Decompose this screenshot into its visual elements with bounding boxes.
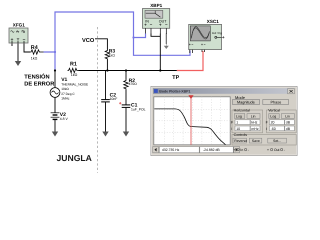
svg-text:470Ω: 470Ω — [129, 82, 138, 86]
svg-text:kHz: kHz — [251, 121, 257, 125]
svg-text:1kΩ: 1kΩ — [109, 54, 116, 58]
wire XFG1 left pin stub — [11, 43, 13, 46]
svg-text:Vertical: Vertical — [268, 108, 280, 112]
wire main line to C2 — [105, 71, 107, 100]
svg-text:1kΩ: 1kΩ — [71, 73, 78, 77]
ground arrow under Bode OUT- — [164, 34, 169, 50]
vertical group — [267, 110, 297, 133]
svg-text:R1: R1 — [70, 61, 77, 67]
wire TP node to oscilloscope channel B (red) — [177, 51, 203, 71]
junction at R2 node — [125, 69, 127, 71]
svg-text:THERMAL_NOISE: THERMAL_NOISE — [61, 83, 88, 87]
svg-text:-24.882 dB: -24.882 dB — [203, 148, 220, 152]
svg-text:-: - — [284, 148, 285, 152]
ground arrow under C1 — [123, 132, 129, 137]
svg-text:+: + — [233, 148, 235, 152]
svg-text:1kΩ: 1kΩ — [31, 56, 38, 60]
battery V2 — [51, 112, 69, 121]
svg-text:TENSIÓN: TENSIÓN — [24, 73, 49, 81]
wire R1 right to TP — [79, 70, 177, 72]
ground arrow under XFG1 — [15, 61, 21, 66]
svg-text:Lin: Lin — [251, 114, 256, 118]
horizontal group — [232, 110, 263, 133]
phase button — [263, 100, 289, 105]
wire R4 to error node and down — [44, 52, 56, 71]
wire V1 bottom to V2 — [54, 97, 56, 112]
red cursor — [190, 97, 192, 145]
svg-text:Phase: Phase — [271, 101, 282, 105]
black wires — [12, 34, 177, 132]
controls group — [232, 134, 296, 145]
svg-text:-: - — [248, 148, 249, 152]
junction at Bode OUT+ node — [159, 69, 161, 71]
svg-text:IN: IN — [145, 19, 149, 23]
window frame — [151, 87, 297, 156]
junction at R4 output node — [54, 51, 56, 53]
svg-text:I: I — [266, 127, 267, 131]
svg-text:XSC1: XSC1 — [207, 19, 219, 24]
svg-text:DE ERROR: DE ERROR — [24, 82, 54, 88]
svg-text:432.735 Hz: 432.735 Hz — [162, 148, 180, 152]
wire XFG1 middle pin down — [17, 43, 19, 61]
svg-text:Horizontal: Horizontal — [234, 108, 250, 112]
wire node up across top to oscilloscope channel A — [55, 12, 190, 55]
wire Bode OUT+ down to main line — [159, 34, 161, 71]
wire branch to Bode plotter IN+ — [134, 34, 146, 38]
svg-text:dB: dB — [286, 121, 291, 125]
svg-text:10nF: 10nF — [110, 97, 118, 101]
function generator XFG1 — [9, 23, 28, 43]
svg-text:VCO: VCO — [82, 38, 95, 44]
capacitor C2 — [101, 92, 117, 102]
svg-text:XBP1: XBP1 — [150, 3, 162, 8]
resistor R2 — [124, 78, 137, 90]
svg-text:Log: Log — [236, 114, 242, 118]
svg-text:Reverse: Reverse — [234, 139, 247, 143]
svg-text:1MHz: 1MHz — [61, 96, 70, 100]
wire C2 bottom to ground — [105, 102, 107, 132]
junction at Bode IN+ branch — [132, 36, 134, 38]
wire R3 bottom to main line — [106, 60, 108, 71]
svg-text:10kΩ: 10kΩ — [61, 87, 69, 91]
wire VCO label stub to R3 — [95, 39, 107, 50]
svg-text:TP: TP — [172, 75, 179, 81]
svg-text:mHz: mHz — [251, 127, 258, 131]
wire V2 bottom to ground — [54, 120, 56, 132]
ground arrow under V2 — [52, 132, 58, 137]
svg-text:+: + — [267, 148, 269, 152]
svg-text:1uF_POL: 1uF_POL — [131, 107, 146, 111]
bode curve — [154, 109, 225, 145]
wire XFG1 right pin to R4 — [24, 43, 30, 52]
svg-text:Out: Out — [274, 148, 280, 152]
ground arrow under C2 — [102, 132, 108, 137]
svg-text:Save: Save — [252, 139, 260, 143]
resistor R4 — [30, 45, 44, 61]
svg-text:Controls: Controls — [234, 133, 248, 137]
oscilloscope XSC1 icon — [189, 19, 225, 53]
svg-text:Set...: Set... — [273, 139, 281, 143]
svg-text:F: F — [231, 120, 233, 124]
svg-text:F: F — [266, 120, 268, 124]
status row — [153, 147, 159, 153]
title bar — [153, 88, 295, 94]
svg-text:1: 1 — [236, 121, 238, 125]
capacitor C1 (polarized) — [119, 102, 146, 111]
close button — [288, 89, 295, 94]
wire Bode IN- down and right — [151, 34, 160, 37]
svg-text:dB: dB — [286, 127, 291, 131]
Bode Plotter window XBP1 — [151, 87, 297, 156]
svg-text:20: 20 — [271, 121, 275, 125]
dashed boundary line — [96, 27, 98, 173]
bode plotter XBP1 icon — [143, 3, 170, 34]
svg-text:In: In — [240, 148, 243, 152]
wire R2 bottom to C1 — [125, 90, 127, 105]
junction at R3/C2 node — [106, 69, 108, 71]
svg-text:XFG1: XFG1 — [13, 23, 25, 28]
svg-text:I: I — [231, 127, 232, 131]
resistor R3 — [105, 49, 115, 60]
svg-text:OUT: OUT — [159, 19, 167, 23]
svg-text:Lin: Lin — [285, 114, 290, 118]
svg-text:4.8 V: 4.8 V — [60, 117, 69, 121]
svg-text:Log: Log — [270, 114, 276, 118]
svg-text:27 Deg C: 27 Deg C — [61, 92, 75, 96]
svg-text:JUNGLA: JUNGLA — [57, 153, 92, 163]
wire C1 bottom to ground — [125, 108, 127, 132]
wire Bode OUT- to ground — [165, 34, 167, 45]
svg-text:Mode: Mode — [235, 95, 246, 100]
resistor R1 — [68, 61, 79, 76]
magnitude button (pressed) — [233, 100, 260, 105]
svg-text:Magnitude: Magnitude — [237, 101, 255, 105]
svg-text:10: 10 — [236, 127, 240, 131]
graph plot — [154, 97, 230, 145]
svg-text:R4: R4 — [31, 45, 38, 51]
svg-text:-60: -60 — [271, 127, 276, 131]
svg-text:Ext Trig: Ext Trig — [212, 31, 222, 35]
svg-text:Bode Plotter-XBP1: Bode Plotter-XBP1 — [159, 89, 190, 93]
wire node to V1 top — [54, 71, 56, 88]
wire main line to R2 — [125, 71, 127, 80]
junction at error-voltage node (R1 left / V1 top) — [54, 69, 56, 71]
noise source V1 — [50, 77, 88, 100]
in/out terminal row — [233, 148, 285, 152]
